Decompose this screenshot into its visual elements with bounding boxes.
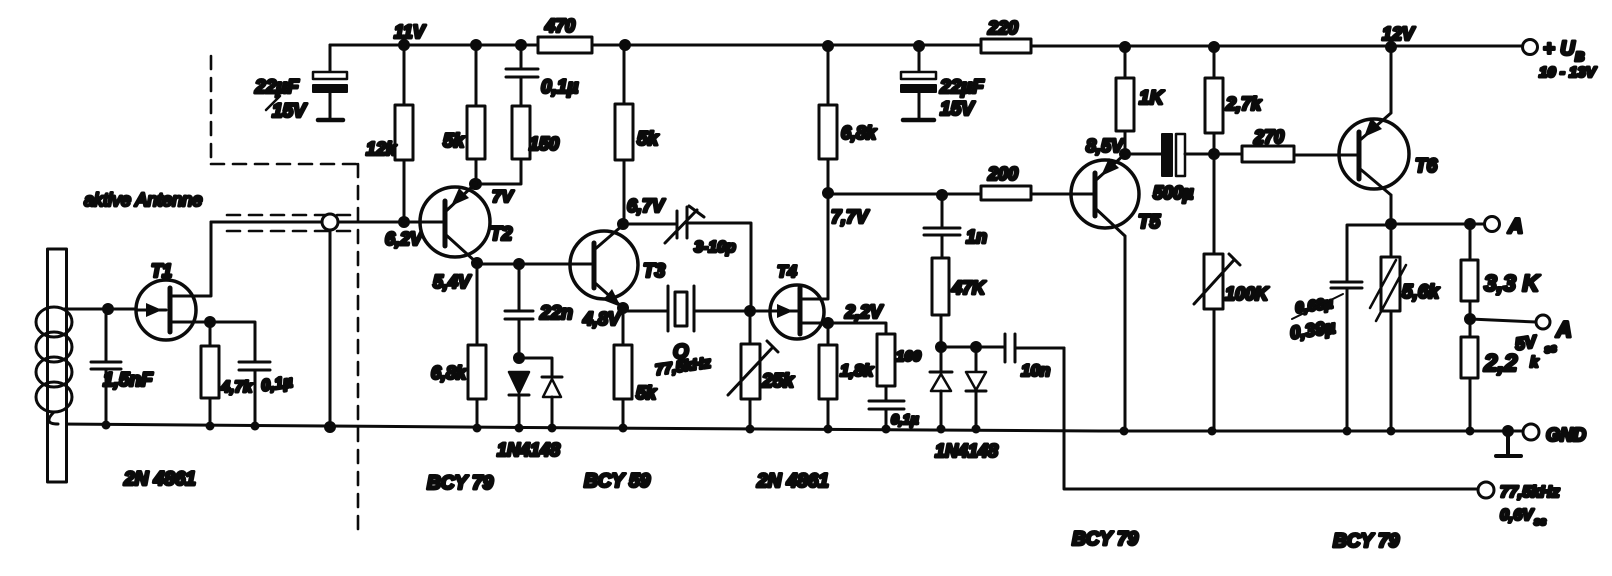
svg-text:4,7k: 4,7k (220, 379, 253, 396)
capacitor 0,1µ (T2) (506, 45, 578, 98)
resistor 1K (1116, 47, 1165, 154)
svg-text:ss: ss (1534, 516, 1546, 528)
svg-text:77,5kHz: 77,5kHz (1500, 484, 1560, 501)
svg-text:BCY 79: BCY 79 (1072, 529, 1139, 550)
capacitor 22µF 15V (right electrolytic) (901, 46, 985, 120)
resistor 220 (981, 18, 1031, 53)
diode D1 1N4148 (509, 372, 529, 428)
svg-text:5k: 5k (636, 383, 657, 403)
svg-text:150: 150 (529, 134, 559, 154)
dashed enclosure aktive Antenne (211, 56, 358, 537)
wire coil top to T1 gate (64, 308, 137, 311)
node crystal/trimmer junction (746, 307, 755, 316)
svg-text:5k: 5k (637, 129, 660, 150)
svg-text:1N4148: 1N4148 (497, 440, 560, 460)
terminal +UB (1523, 38, 1598, 81)
resistor 3,3K (1461, 224, 1540, 319)
crystal Q 77,5kHz (623, 286, 770, 379)
node cable shield to ground (326, 423, 335, 432)
resistor 1,8k (819, 323, 875, 429)
label 1N4148 (pair 1) (497, 440, 560, 460)
svg-text:7V: 7V (492, 187, 514, 206)
node T3 collector 6,7V (619, 196, 667, 229)
resistor 5k (T2 emitter) (443, 45, 485, 183)
node 7V emitter (472, 180, 515, 207)
node 6,2V (385, 218, 424, 250)
transistor T2 BCY79 (420, 184, 513, 263)
ground junction diode D3 (937, 425, 946, 434)
svg-text:2,7k: 2,7k (1225, 94, 1262, 114)
ground junction diode D1 (515, 424, 524, 433)
svg-text:0,68µ: 0,68µ (1294, 295, 1334, 317)
resistor 470 (538, 16, 592, 53)
diode D2 1N4148 (542, 377, 562, 428)
node T4 source 2,2V (824, 302, 885, 328)
capacitor 10n (1005, 334, 1064, 380)
resistor 6,8k (7,7V feed) (819, 46, 877, 193)
wire collector node left (1347, 225, 1391, 280)
svg-text:22µF: 22µF (939, 77, 985, 98)
svg-text:2,2: 2,2 (1483, 350, 1518, 377)
node 3,3K top (1466, 220, 1475, 229)
node 7,7V (824, 189, 871, 228)
resistor 5k (T3 collector) (615, 45, 660, 224)
capacitor 22µF 15V (left electrolytic) (254, 45, 347, 122)
resistor 2,2k (1461, 319, 1539, 431)
svg-text:15V: 15V (940, 99, 975, 120)
svg-text:220: 220 (987, 18, 1018, 38)
resistor 270 (1214, 127, 1359, 162)
ground junction 2,2k (1466, 427, 1475, 436)
terminal GND (1523, 424, 1586, 445)
svg-text:5,6k: 5,6k (1402, 282, 1440, 303)
svg-text:5,4V: 5,4V (433, 272, 472, 292)
top supply rail (330, 45, 1523, 46)
svg-text:2N 4861: 2N 4861 (123, 469, 196, 490)
ground junction 6,8k T2 (473, 424, 482, 433)
node top rail at 5k (472, 41, 481, 50)
svg-text:6,2V: 6,2V (385, 229, 424, 249)
svg-text:5k: 5k (443, 131, 466, 152)
node 8,5V (1086, 136, 1130, 159)
wire T1 drain cable to T2 base (211, 221, 445, 224)
label 11V (394, 22, 427, 42)
svg-text:1N4148: 1N4148 (935, 441, 998, 461)
potentiometer 25k (728, 311, 795, 428)
resistor 100 (828, 323, 922, 400)
antenna coil (36, 307, 72, 424)
resistor 200 (981, 164, 1095, 200)
connector plug on antenna cable (322, 214, 338, 426)
trimmer capacitor 3-10p (623, 206, 751, 311)
svg-text:77,5kHz: 77,5kHz (654, 354, 712, 379)
wire collector node to terminal A (1391, 223, 1485, 226)
resistor 2,7k (1205, 47, 1262, 154)
ground junction 0,1µ T4 (882, 425, 891, 434)
svg-text:1,5nF: 1,5nF (103, 370, 154, 391)
node top rail at 5k T3 (621, 41, 630, 50)
svg-text:200: 200 (987, 164, 1018, 184)
svg-text:4,8V: 4,8V (582, 309, 622, 329)
svg-text:A: A (1507, 215, 1523, 238)
node GND junction (1504, 427, 1513, 436)
svg-text:6,8k: 6,8k (841, 123, 877, 143)
svg-text:6,7V: 6,7V (627, 196, 666, 216)
node top rail at 1K (1121, 43, 1130, 52)
node T2 collector (433, 259, 482, 293)
node 270/100K junction (1210, 150, 1219, 159)
potentiometer 5,6k (1370, 224, 1440, 431)
node top rail at 2,7k (1210, 43, 1219, 52)
label BCY 79 (T6) (1333, 531, 1400, 552)
label 1N4148 (pair 2) (935, 441, 998, 461)
node diode pair 2 right (972, 343, 981, 352)
svg-text:0,1µ: 0,1µ (260, 374, 294, 395)
svg-text:25k: 25k (761, 371, 795, 392)
ground junction 100K (1208, 427, 1217, 436)
node diode pair 2 left (937, 343, 1005, 352)
svg-text:1,8k: 1,8k (840, 361, 875, 380)
capacitor 22n (505, 264, 573, 358)
ground junction 4,7k (206, 422, 215, 431)
transistor T4 2N4861 JFET (770, 193, 828, 339)
svg-text:BCY 59: BCY 59 (584, 471, 651, 492)
svg-text:0,1µ: 0,1µ (891, 411, 919, 427)
transistor T3 BCY59 (570, 225, 666, 308)
node T6 collector (1387, 220, 1396, 229)
svg-text:12V: 12V (1382, 24, 1416, 44)
resistor 150 (476, 77, 559, 184)
svg-text:T2: T2 (490, 224, 513, 245)
svg-text:1n: 1n (966, 227, 987, 247)
node top rail at 22µF (915, 42, 924, 51)
node gate junction (104, 305, 113, 314)
svg-text:11V: 11V (394, 22, 427, 42)
svg-text:2,2V: 2,2V (844, 302, 884, 322)
svg-text:T6: T6 (1415, 156, 1438, 177)
resistor 12k (366, 45, 413, 221)
wire T2 collector to T3 base (477, 263, 594, 266)
label BCY 79 (T2) (427, 473, 494, 494)
node top rail at 0,1µ (517, 41, 526, 50)
svg-text:0,1µ: 0,1µ (541, 77, 578, 98)
ground junction 1,8k (824, 425, 833, 434)
capacitor 1n (924, 195, 987, 258)
svg-text:8,5V: 8,5V (1086, 136, 1125, 156)
ground junction 0,1µ antenna (251, 422, 260, 431)
transistor T6 BCY79 (1339, 47, 1438, 224)
svg-text:47K: 47K (951, 278, 987, 298)
svg-text:2N 4861: 2N 4861 (756, 471, 829, 492)
svg-text:T5: T5 (1138, 212, 1161, 233)
svg-text:10n: 10n (1021, 361, 1050, 380)
wire to GND terminal (1508, 430, 1523, 433)
svg-text:T1: T1 (151, 261, 172, 281)
svg-text:22n: 22n (539, 303, 573, 324)
resistor 47K (932, 258, 987, 347)
svg-text:1K: 1K (1139, 88, 1165, 109)
capacitor 0,1µ (antenna) (210, 322, 294, 426)
diode D4 1N4148 (966, 347, 986, 429)
capacitor 0,1µ (T4 source) (869, 401, 919, 429)
resistor 4,7k (201, 322, 253, 426)
ground junction T5 collector (1120, 427, 1129, 436)
label 2N4861 (T4 type) (756, 471, 829, 492)
wire to terminal A lower (1470, 319, 1536, 322)
label BCY 79 (T5) (1072, 529, 1139, 550)
wire 7,7V to 200 (828, 193, 981, 196)
capacitor 0,39µ (1289, 226, 1362, 431)
svg-text:aktive Antenne: aktive Antenne (84, 190, 202, 210)
ground junction 25k (746, 425, 755, 434)
svg-text:0,39µ: 0,39µ (1289, 317, 1337, 343)
label BCY 59 (584, 471, 651, 492)
svg-text:A: A (1555, 317, 1572, 342)
label 5Vss (1514, 332, 1558, 356)
node top rail at 6,8k (824, 42, 833, 51)
node A lower junction (1466, 315, 1475, 324)
ground symbol at GND (1496, 431, 1521, 456)
svg-text:12k: 12k (366, 139, 397, 159)
svg-text:BCY 79: BCY 79 (1333, 531, 1400, 552)
node T2 emitter top (471, 180, 480, 189)
transistor T1 (2N4861 JFET) (136, 222, 211, 340)
potentiometer 100K (1194, 154, 1270, 431)
node 11V (400, 41, 409, 50)
resistor 6,8k (T2 collector) (431, 263, 486, 428)
label aktive Antenne (84, 190, 202, 210)
svg-text:100: 100 (896, 348, 922, 365)
svg-text:T4: T4 (777, 262, 797, 281)
svg-text:270: 270 (1253, 127, 1284, 147)
svg-text:GND: GND (1546, 425, 1586, 445)
node T1 source (206, 318, 215, 327)
label 2N4861 (T1 type) (123, 469, 196, 490)
svg-text:470: 470 (544, 16, 575, 36)
ground junction 5k T3 emitter (619, 424, 628, 433)
svg-text:7,7V: 7,7V (831, 207, 870, 227)
ferrite rod antenna (48, 249, 67, 482)
ground junction diode D2 (548, 424, 557, 433)
svg-text:T3: T3 (643, 261, 666, 282)
transistor T5 BCY79 (1071, 154, 1161, 431)
resistor 5k (T3 emitter) (614, 308, 657, 428)
wire 77,5kHz output run (1064, 348, 1478, 489)
svg-text:100K: 100K (1225, 284, 1270, 304)
wire 7,7V rail up (827, 46, 830, 193)
svg-text:ss: ss (1544, 342, 1558, 356)
capacitor 500µ electrolytic (1125, 134, 1214, 203)
terminal A upper (1485, 215, 1524, 238)
ground junction 1,5nF (102, 421, 111, 430)
node 1n top (938, 191, 947, 200)
svg-text:22µF: 22µF (254, 77, 300, 98)
svg-text:5V: 5V (1514, 332, 1539, 354)
ground junction 5,6k (1387, 427, 1396, 436)
svg-text:BCY 79: BCY 79 (427, 473, 494, 494)
capacitor 1,5nF (91, 309, 154, 425)
terminal 77,5kHz (1478, 482, 1560, 528)
ground junction diode D4 (972, 425, 981, 434)
node diode pair 1 top (515, 354, 553, 378)
node T3 emitter 4,8V (582, 304, 628, 330)
node 12V (1382, 24, 1416, 52)
svg-text:+ U: + U (1543, 38, 1575, 60)
svg-text:10 - 13V: 10 - 13V (1539, 64, 1598, 81)
svg-text:6,8k: 6,8k (431, 363, 467, 383)
svg-text:3-10p: 3-10p (694, 239, 736, 256)
diode D3 1N4148 (930, 347, 952, 429)
ground junction 0,39µ (1343, 427, 1352, 436)
svg-text:15V: 15V (272, 101, 307, 122)
svg-text:0,6V: 0,6V (1500, 507, 1534, 524)
svg-text:500µ: 500µ (1153, 183, 1194, 203)
svg-text:k: k (1530, 354, 1539, 371)
terminal A lower (1536, 315, 1572, 342)
node 22n top (515, 260, 524, 269)
ground rail (58, 424, 1508, 431)
svg-text:3,3 K: 3,3 K (1484, 270, 1540, 296)
svg-text:B: B (1575, 49, 1584, 64)
